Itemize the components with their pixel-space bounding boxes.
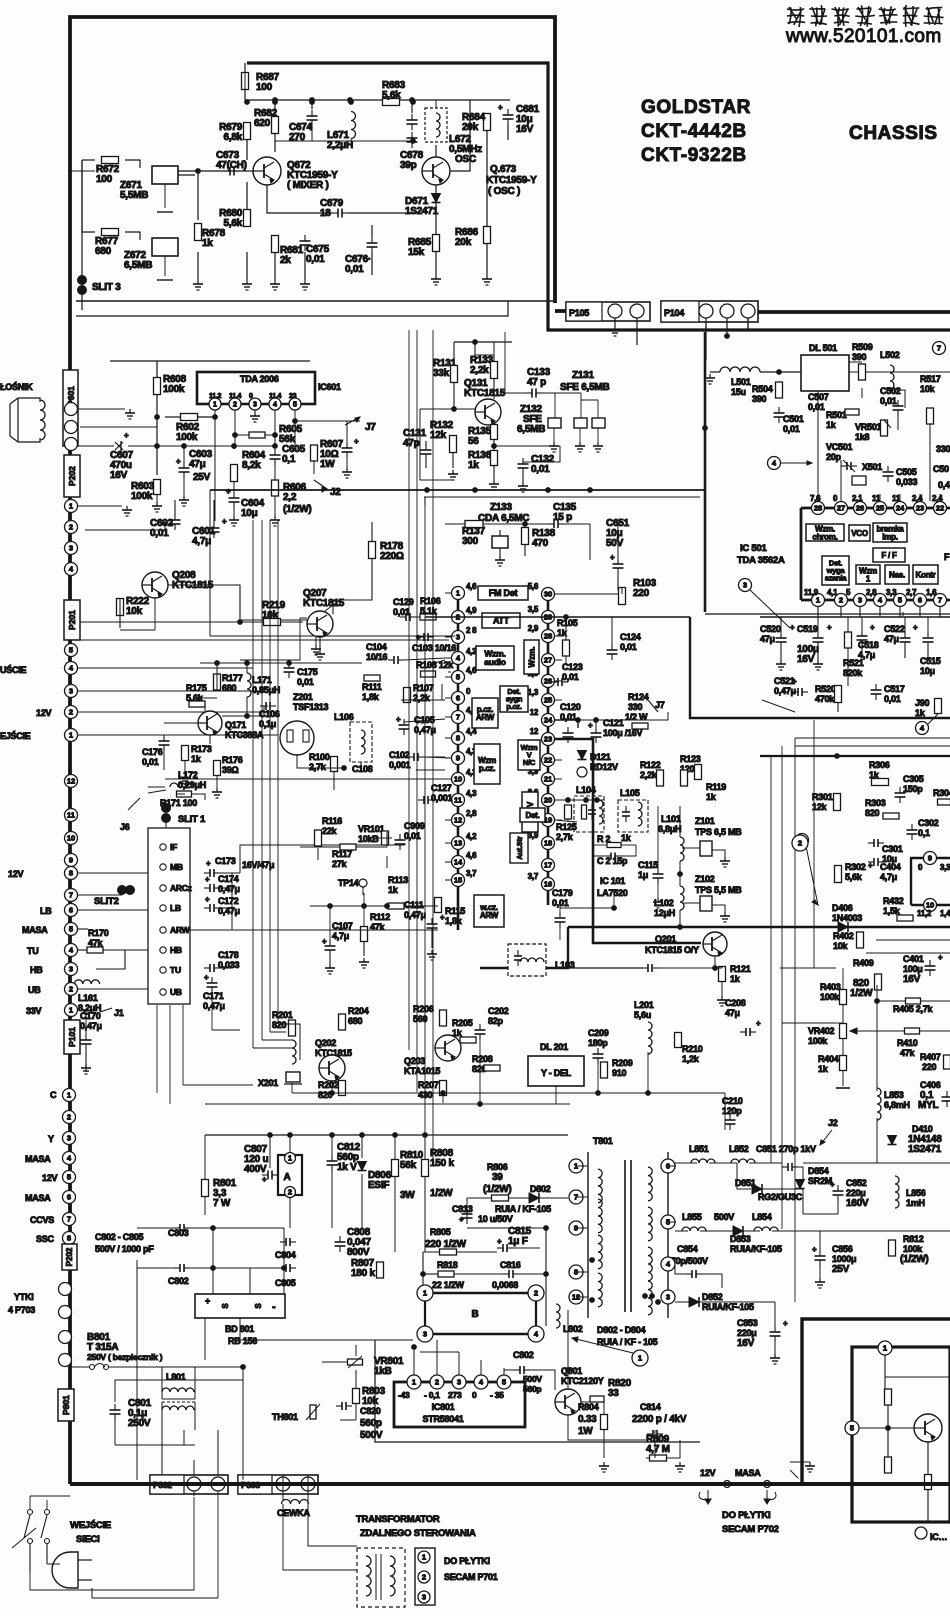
svg-text:LB: LB: [170, 903, 181, 913]
svg-text:Q201: Q201: [655, 934, 676, 944]
svg-text:-43: -43: [398, 1390, 410, 1400]
svg-text:330: 330: [936, 444, 950, 454]
svg-text:10k: 10k: [126, 606, 143, 617]
svg-text:C505: C505: [896, 467, 917, 477]
svg-text:0: 0: [472, 1390, 477, 1400]
svg-text:24: 24: [896, 504, 905, 513]
svg-text:VC501: VC501: [826, 442, 853, 452]
svg-text:DO PŁYTKI: DO PŁYTKI: [444, 1556, 490, 1566]
svg-text:R210: R210: [682, 1044, 703, 1054]
svg-text:F / F: F / F: [881, 551, 897, 560]
svg-text:R302: R302: [845, 862, 866, 872]
svg-text:20k: 20k: [455, 237, 472, 248]
svg-text:MASA: MASA: [25, 1193, 51, 1203]
svg-text:56: 56: [468, 436, 479, 447]
svg-text:C404: C404: [880, 862, 901, 872]
svg-text:R407: R407: [920, 1052, 941, 1062]
svg-text:7: 7: [937, 344, 941, 353]
svg-text:B: B: [472, 1309, 479, 1320]
svg-text:L101: L101: [661, 814, 681, 824]
svg-text:C123: C123: [562, 662, 583, 672]
svg-text:audio: audio: [484, 657, 505, 667]
svg-text:47μ: 47μ: [725, 1008, 740, 1018]
svg-text:1k: 1k: [818, 1064, 829, 1074]
svg-text:P105: P105: [569, 308, 589, 318]
svg-text:SLIT 3: SLIT 3: [92, 282, 121, 293]
svg-text:22: 22: [544, 756, 552, 765]
svg-text:C909: C909: [404, 821, 425, 831]
svg-text:220Ω: 220Ω: [380, 551, 404, 562]
svg-text:220μ: 220μ: [737, 1328, 757, 1338]
svg-text:Y - DEL: Y - DEL: [541, 1068, 572, 1078]
svg-text:R209: R209: [612, 1058, 633, 1068]
svg-text:1μ F: 1μ F: [508, 1236, 528, 1247]
svg-text:C804: C804: [275, 1250, 296, 1260]
svg-text:+: +: [176, 457, 181, 466]
svg-text:IF: IF: [170, 842, 177, 852]
svg-text:1k8: 1k8: [855, 432, 870, 442]
svg-text:26: 26: [856, 504, 864, 513]
svg-text:5,6k: 5,6k: [382, 90, 401, 101]
svg-text:4,6: 4,6: [466, 851, 477, 860]
svg-text:+: +: [610, 553, 615, 562]
svg-text:2,2k: 2,2k: [470, 365, 489, 376]
svg-text:7,6: 7,6: [810, 494, 821, 503]
svg-text:4,1: 4,1: [827, 588, 838, 597]
svg-text:1k: 1k: [915, 708, 926, 718]
svg-text:C803: C803: [168, 1228, 189, 1238]
svg-text:Q801: Q801: [561, 1366, 582, 1376]
svg-text:100k: 100k: [163, 384, 185, 395]
svg-text:+: +: [792, 677, 797, 686]
svg-text:C501: C501: [783, 414, 804, 424]
svg-text:10: 10: [454, 775, 462, 784]
svg-text:C103 10/16: C103 10/16: [412, 643, 456, 653]
svg-text:+: +: [812, 1245, 817, 1254]
svg-text:4,7μ: 4,7μ: [192, 536, 211, 547]
svg-text:R113: R113: [388, 875, 408, 885]
svg-text:SECAM P701: SECAM P701: [444, 1572, 498, 1582]
svg-text:(1/2W): (1/2W): [900, 1254, 929, 1265]
svg-text:+: +: [588, 721, 593, 730]
svg-text:4,3: 4,3: [466, 789, 477, 798]
svg-text:11: 11: [872, 494, 881, 503]
svg-text:+: +: [498, 103, 503, 112]
svg-text:2: 2: [435, 1378, 439, 1387]
svg-text:1: 1: [69, 1006, 73, 1015]
svg-text:28: 28: [544, 632, 552, 641]
svg-text:C522: C522: [884, 624, 905, 634]
svg-text:HB: HB: [170, 945, 182, 955]
svg-text:9: 9: [69, 856, 73, 865]
svg-text:RUIA/KF-105: RUIA/KF-105: [730, 1244, 782, 1254]
svg-text:L106: L106: [334, 712, 354, 722]
svg-text:szania: szania: [825, 574, 848, 583]
svg-text:3: 3: [69, 687, 73, 696]
svg-text:7: 7: [938, 596, 942, 605]
svg-text:3: 3: [67, 1134, 71, 1143]
svg-text:390: 390: [852, 352, 867, 362]
svg-text:5,6k: 5,6k: [224, 218, 243, 229]
svg-text:3: 3: [422, 1593, 426, 1602]
svg-text:820k: 820k: [843, 668, 863, 678]
svg-text:2: 2: [798, 839, 802, 848]
svg-text:5: 5: [456, 673, 460, 682]
svg-text:R119: R119: [706, 782, 726, 792]
svg-text:C208: C208: [725, 998, 746, 1008]
svg-text:3: 3: [69, 965, 73, 974]
svg-text:MASA: MASA: [25, 1154, 51, 1164]
svg-text:100k: 100k: [131, 491, 153, 502]
svg-text:6: 6: [918, 596, 922, 605]
svg-text:R206: R206: [413, 1004, 434, 1014]
svg-text:J2: J2: [828, 1118, 838, 1128]
svg-text:C107: C107: [332, 921, 353, 931]
svg-text:CCVS: CCVS: [30, 1215, 54, 1225]
svg-text:R301: R301: [812, 792, 833, 802]
svg-text:R124: R124: [628, 692, 649, 702]
svg-text:(1/2W): (1/2W): [483, 1184, 512, 1195]
svg-text:11,9: 11,9: [804, 588, 819, 597]
svg-text:8: 8: [69, 869, 73, 878]
svg-text:R125: R125: [556, 822, 577, 832]
svg-text:2: 2: [422, 1573, 426, 1582]
svg-text:15 p: 15 p: [553, 512, 572, 523]
svg-text:P201: P201: [67, 610, 77, 630]
svg-text:+: +: [204, 973, 209, 982]
svg-text:470: 470: [532, 538, 549, 549]
svg-text:L856: L856: [906, 1188, 926, 1198]
svg-text:0,1: 0,1: [918, 828, 930, 838]
svg-text:L102: L102: [654, 898, 674, 908]
svg-text:330: 330: [628, 702, 643, 712]
svg-text:1000μ: 1000μ: [832, 1254, 856, 1264]
svg-text:KTA1015: KTA1015: [404, 1066, 440, 1076]
svg-text:HB: HB: [30, 965, 43, 975]
svg-text:p.cz.: p.cz.: [479, 764, 496, 773]
svg-text:iC801: iC801: [432, 1402, 455, 1412]
svg-text:82p: 82p: [488, 1016, 504, 1026]
svg-text:5,6: 5,6: [528, 582, 539, 591]
svg-text:L852: L852: [729, 1144, 749, 1154]
svg-text:S: S: [254, 1303, 263, 1309]
svg-text:+: +: [262, 1175, 267, 1184]
svg-text:R116: R116: [322, 816, 342, 826]
svg-text:L855: L855: [682, 1212, 702, 1222]
svg-text:C813: C813: [452, 1204, 473, 1214]
svg-text:0,47μ: 0,47μ: [203, 1001, 225, 1011]
svg-text:CKT-9322B: CKT-9322B: [641, 145, 747, 166]
svg-text:10μ: 10μ: [241, 508, 258, 519]
svg-text:L851: L851: [689, 1144, 709, 1154]
svg-text:J7: J7: [655, 700, 665, 710]
svg-text:RB 156: RB 156: [228, 1336, 257, 1346]
svg-text:400V: 400V: [244, 1164, 267, 1175]
svg-text:5: 5: [502, 1378, 506, 1387]
svg-text:X201: X201: [258, 1078, 278, 1088]
svg-text:C814: C814: [640, 1402, 661, 1412]
svg-text:22 1/2W: 22 1/2W: [432, 1280, 465, 1290]
svg-text:C802: C802: [513, 1350, 534, 1360]
svg-text:4,6: 4,6: [466, 582, 477, 591]
svg-text:2k: 2k: [280, 255, 291, 266]
svg-text:+: +: [222, 517, 227, 526]
svg-text:R121: R121: [730, 964, 751, 974]
svg-text:100k: 100k: [820, 992, 840, 1002]
svg-text:C851 270p 1kV: C851 270p 1kV: [756, 1144, 816, 1154]
svg-text:J2: J2: [330, 487, 341, 498]
svg-text:0,01: 0,01: [562, 672, 579, 682]
svg-text:0,47μ: 0,47μ: [218, 884, 240, 894]
svg-text:+: +: [870, 623, 875, 632]
svg-text:2,2: 2,2: [283, 492, 297, 503]
svg-text:1k: 1k: [730, 974, 741, 984]
svg-text:C176: C176: [142, 747, 163, 757]
svg-text:1: 1: [213, 402, 217, 409]
svg-text:18: 18: [544, 839, 552, 848]
svg-text:D406: D406: [832, 903, 853, 913]
svg-text:C120: C120: [560, 702, 581, 712]
svg-text:C805: C805: [275, 1278, 296, 1288]
svg-text:300: 300: [462, 536, 479, 547]
svg-text:- 35: - 35: [490, 1390, 504, 1400]
svg-text:( MIXER ): ( MIXER ): [287, 180, 329, 191]
svg-text:5: 5: [69, 646, 73, 655]
svg-text:UB: UB: [170, 987, 182, 997]
svg-text:6,5MB: 6,5MB: [124, 260, 152, 271]
svg-text:C517: C517: [884, 684, 905, 694]
svg-text:R100: R100: [309, 752, 330, 762]
svg-text:OSC: OSC: [455, 154, 476, 165]
svg-text:DO PŁYTKI: DO PŁYTKI: [722, 1510, 770, 1521]
svg-text:2,9: 2,9: [528, 624, 539, 633]
svg-text:R173: R173: [191, 744, 212, 754]
svg-text:8,2k: 8,2k: [242, 460, 261, 471]
svg-text:9: 9: [928, 854, 932, 863]
svg-text:0,47μ: 0,47μ: [404, 910, 426, 920]
svg-text:25V: 25V: [832, 1264, 850, 1275]
svg-text:12V: 12V: [8, 869, 24, 879]
svg-text:3: 3: [69, 544, 73, 553]
svg-text:2200 p / 4kV: 2200 p / 4kV: [632, 1414, 687, 1425]
svg-text:5: 5: [898, 596, 902, 605]
svg-text:33k: 33k: [433, 368, 450, 379]
svg-text:0,033: 0,033: [896, 477, 918, 487]
svg-text:L105: L105: [620, 788, 640, 798]
svg-text:2 8: 2 8: [466, 626, 477, 635]
svg-text:D854: D854: [808, 1166, 829, 1176]
svg-text:SECAM P702: SECAM P702: [722, 1524, 779, 1535]
svg-text:Wzm.: Wzm.: [528, 647, 537, 668]
svg-text:47μ: 47μ: [884, 634, 899, 644]
svg-text:150 k: 150 k: [430, 1158, 454, 1169]
svg-text:imp.: imp.: [882, 532, 897, 541]
svg-text:IC 501: IC 501: [740, 543, 767, 554]
svg-text:+: +: [756, 1019, 761, 1028]
svg-text:Aut.Str: Aut.Str: [517, 836, 524, 860]
svg-text:www.520101.com: www.520101.com: [785, 26, 942, 47]
svg-text:12: 12: [530, 708, 539, 717]
svg-text:0,01: 0,01: [345, 264, 364, 275]
svg-text:VCO: VCO: [851, 529, 868, 538]
svg-text:C175: C175: [297, 667, 318, 677]
svg-text:180 k: 180 k: [351, 1268, 375, 1279]
svg-text:47k: 47k: [900, 1048, 916, 1058]
svg-text:39: 39: [492, 1172, 503, 1183]
svg-text:R208: R208: [472, 1054, 493, 1064]
svg-text:C124: C124: [620, 632, 641, 642]
svg-text:YTKI: YTKI: [14, 1292, 34, 1302]
svg-text:5: 5: [293, 402, 297, 409]
svg-text:R303: R303: [865, 798, 886, 808]
svg-text:15: 15: [454, 876, 462, 885]
svg-text:R111: R111: [362, 682, 382, 692]
svg-text:L201: L201: [634, 1000, 654, 1010]
svg-text:R520: R520: [815, 684, 836, 694]
svg-text:47(CH): 47(CH): [216, 160, 247, 171]
svg-text:1S2471: 1S2471: [908, 1144, 942, 1155]
svg-text:TU: TU: [170, 965, 181, 975]
svg-text:R410: R410: [897, 1038, 918, 1048]
svg-text:1: 1: [69, 502, 73, 511]
svg-text:0.33: 0.33: [578, 1414, 597, 1425]
svg-text:0,0068: 0,0068: [492, 1280, 518, 1290]
svg-text:MYL: MYL: [918, 1100, 939, 1111]
svg-text:1k: 1k: [706, 792, 717, 802]
svg-text:R304: R304: [933, 788, 950, 798]
svg-text:J6: J6: [120, 822, 130, 832]
svg-text:6: 6: [69, 906, 73, 915]
svg-text:+: +: [497, 1237, 502, 1246]
svg-text:21: 21: [544, 775, 552, 784]
svg-text:R202: R202: [318, 1080, 339, 1090]
svg-text:10/16: 10/16: [366, 652, 388, 662]
svg-text:500V: 500V: [360, 1430, 383, 1441]
svg-text:+: +: [205, 875, 210, 884]
svg-text:910: 910: [612, 1068, 627, 1078]
svg-text:R107: R107: [413, 683, 434, 693]
svg-text:220: 220: [633, 588, 650, 599]
svg-text:STR58041: STR58041: [422, 1414, 463, 1424]
svg-text:1,4: 1,4: [940, 909, 950, 918]
svg-text:4,2: 4,2: [466, 832, 477, 841]
svg-text:1k: 1k: [826, 420, 837, 430]
svg-text:R306: R306: [869, 760, 890, 770]
svg-text:KTC1959-Y: KTC1959-Y: [486, 175, 537, 186]
svg-text:R812: R812: [903, 1234, 924, 1244]
svg-text:470k: 470k: [815, 694, 835, 704]
svg-text:N/C: N/C: [523, 758, 536, 767]
svg-text:10 u/50V: 10 u/50V: [478, 1214, 513, 1224]
svg-text:1k: 1k: [388, 885, 399, 895]
svg-text:9: 9: [456, 754, 460, 763]
svg-text:620: 620: [254, 118, 271, 129]
svg-text:0,85μH: 0,85μH: [252, 685, 280, 695]
svg-text:+: +: [459, 1215, 464, 1224]
svg-text:+: +: [396, 715, 401, 724]
svg-text:4: 4: [273, 402, 277, 409]
svg-text:X501: X501: [862, 462, 882, 472]
svg-text:- 0,1: - 0,1: [424, 1390, 440, 1400]
svg-text:C: C: [50, 1090, 57, 1100]
svg-text:C171: C171: [203, 991, 224, 1001]
svg-text:1,2k: 1,2k: [682, 1054, 700, 1064]
svg-text:R106: R106: [420, 596, 441, 606]
svg-text:MASA: MASA: [735, 1468, 761, 1478]
svg-text:ARW: ARW: [170, 925, 191, 935]
svg-text:16V: 16V: [797, 654, 815, 665]
svg-text:15u: 15u: [731, 387, 746, 397]
svg-text:3: 3: [423, 1330, 427, 1339]
svg-text:ESIF: ESIF: [368, 1180, 389, 1191]
svg-text:C302: C302: [918, 818, 939, 828]
svg-text:R404: R404: [818, 1054, 839, 1064]
svg-text:ŁOŚNIK: ŁOŚNIK: [0, 381, 33, 392]
svg-text:C856: C856: [832, 1244, 853, 1254]
svg-text:33: 33: [608, 1388, 619, 1399]
svg-text:5,6k: 5,6k: [845, 872, 863, 882]
svg-text:10kB: 10kB: [358, 834, 379, 844]
svg-text:1: 1: [412, 1378, 416, 1387]
svg-text:R115: R115: [445, 906, 465, 916]
svg-text:C178: C178: [218, 950, 239, 960]
svg-text:R504: R504: [752, 384, 773, 394]
svg-text:F: F: [944, 552, 950, 562]
svg-text:12: 12: [530, 727, 539, 736]
svg-text:10: 10: [67, 834, 75, 843]
svg-text:1k V: 1k V: [337, 1162, 357, 1173]
svg-text:12V: 12V: [42, 1173, 58, 1183]
svg-text:25: 25: [876, 504, 884, 513]
svg-text:2,2μH: 2,2μH: [327, 140, 353, 151]
svg-text:3: 3: [457, 1378, 461, 1387]
svg-text:10μ: 10μ: [920, 666, 935, 676]
svg-text:12: 12: [454, 816, 462, 825]
svg-text:22: 22: [936, 504, 944, 513]
svg-text:23: 23: [916, 504, 924, 513]
svg-text:3: 3: [666, 1293, 670, 1302]
svg-text:SSC: SSC: [36, 1234, 55, 1244]
svg-text:C108: C108: [352, 764, 373, 774]
svg-text:R112: R112: [370, 912, 390, 922]
svg-text:680: 680: [222, 683, 237, 693]
svg-text:273: 273: [448, 1390, 462, 1400]
svg-text:5,5MB: 5,5MB: [120, 190, 148, 201]
svg-text:16: 16: [544, 880, 552, 889]
svg-text:2,8: 2,8: [466, 809, 477, 818]
svg-text:SLIT 1: SLIT 1: [178, 814, 206, 825]
svg-text:C50: C50: [933, 464, 949, 474]
svg-text:7: 7: [456, 713, 460, 722]
svg-text:J90: J90: [915, 698, 930, 708]
svg-text:2: 2: [69, 708, 73, 717]
svg-text:L802: L802: [563, 1324, 583, 1334]
svg-text:47μ: 47μ: [760, 634, 775, 644]
svg-text:TDA 3562A: TDA 3562A: [737, 555, 785, 566]
svg-text:C519: C519: [797, 624, 818, 634]
svg-text:Nas.: Nas.: [889, 570, 905, 579]
svg-text:160V: 160V: [846, 1198, 869, 1209]
svg-text:ARW: ARW: [476, 713, 495, 722]
svg-text:C515: C515: [920, 656, 941, 666]
svg-text:8: 8: [456, 734, 460, 743]
svg-text:6,5MB: 6,5MB: [517, 424, 545, 435]
svg-text:J7: J7: [365, 422, 376, 433]
svg-text:0,4: 0,4: [938, 480, 950, 490]
svg-text:+: +: [205, 895, 210, 904]
svg-text:IC…: IC…: [930, 1532, 947, 1542]
svg-text:RUIA/KF-105: RUIA/KF-105: [702, 1302, 754, 1312]
